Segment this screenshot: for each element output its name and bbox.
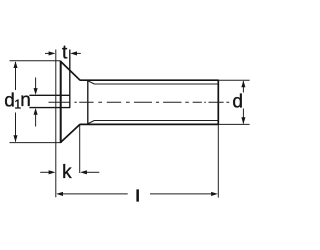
centerline (axis, dash-dot) — [49, 101, 230, 103]
svg-text:d: d — [4, 90, 15, 111]
d dimension line lower segment — [242, 109, 244, 124]
arrowhead t right (points left) — [70, 51, 77, 55]
arrowhead d down — [241, 117, 245, 124]
slot floor vertical + t extension line — [69, 50, 71, 109]
k right extension line — [79, 125, 81, 173]
arrowhead n top (points down) — [34, 88, 38, 95]
common left extension line (t,k,l) — [55, 50, 57, 198]
k dimension left arrow tail — [40, 171, 51, 173]
arrowhead t left (points right) — [49, 51, 56, 55]
t dimension left arrow tail — [45, 52, 51, 54]
l dimension line left segment — [61, 193, 128, 195]
d extension line bottom (outer line extended) — [218, 123, 249, 125]
svg-text:t: t — [62, 43, 68, 64]
arrowhead d1 up — [13, 61, 17, 68]
arrowhead n bottom (points up) — [34, 108, 38, 115]
n dimension bottom arrow tail — [35, 114, 37, 127]
arrowhead k left (points right) — [49, 170, 56, 174]
d1 dimension line upper segment — [15, 62, 17, 90]
slot lower edge + n extension line — [29, 107, 69, 109]
l dimension line right segment — [150, 193, 213, 195]
head countersink cone top edge — [60, 61, 80, 80]
shank outer bottom line (major diameter) — [80, 123, 219, 125]
svg-text:n: n — [20, 90, 31, 111]
d dimension line upper segment — [242, 81, 244, 92]
thread root top line — [94, 83, 218, 85]
screw end face — [217, 80, 219, 125]
svg-text:k: k — [62, 162, 72, 183]
arrowhead d up — [241, 81, 245, 88]
slot upper edge + n extension line — [29, 94, 69, 96]
d1 extension line bottom — [10, 142, 61, 144]
arrowhead l left (points left) — [56, 192, 63, 196]
thread root runout diagonal top — [88, 81, 94, 84]
thread runout boundary vertical — [87, 80, 89, 124]
head countersink cone bottom edge — [60, 124, 80, 143]
arrowhead d1 down — [13, 135, 17, 142]
d extension line top (outer line extended) — [218, 79, 249, 81]
arrowhead k right (points left) — [80, 170, 87, 174]
arrowhead l right (points right) — [211, 192, 218, 196]
shank outer top line (major diameter) — [80, 79, 219, 81]
l right extension line below end face — [217, 125, 219, 198]
k dimension right arrow tail — [85, 171, 100, 173]
screw head face outline — [60, 61, 62, 143]
svg-text:l: l — [135, 187, 140, 205]
t dimension right arrow tail — [75, 52, 81, 54]
thread root bottom line — [94, 120, 218, 122]
d1 extension line top — [10, 60, 61, 62]
thread root runout diagonal bottom — [88, 121, 94, 124]
n dimension top arrow tail — [35, 78, 37, 90]
svg-text:d: d — [232, 92, 243, 113]
d1 dimension line lower segment — [15, 113, 17, 142]
